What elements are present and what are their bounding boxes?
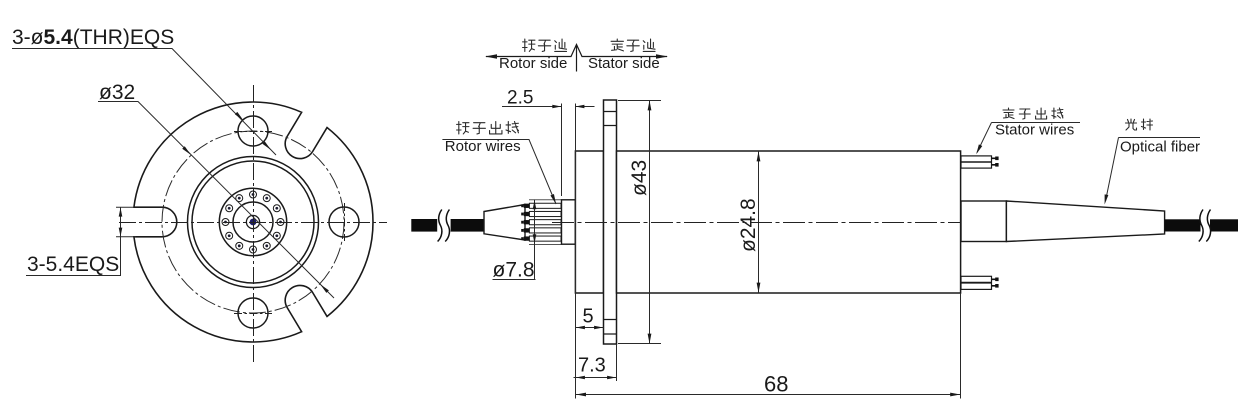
rotor ring circle inner — [192, 161, 314, 283]
svg-text:3-5.4EQS: 3-5.4EQS — [27, 253, 119, 276]
svg-text:5: 5 — [583, 306, 594, 328]
rotor wire pins x5 — [529, 203, 561, 208]
hub circle inner — [233, 202, 273, 242]
centerline of side view — [552, 222, 1164, 224]
right cable break symbol — [1201, 218, 1211, 234]
svg-text:Rotor side: Rotor side — [499, 55, 567, 72]
stator wires connector top — [961, 156, 992, 168]
right cable (optical fiber) — [1165, 219, 1238, 231]
hub circle outer — [219, 188, 286, 255]
text 光纤 — [1126, 119, 1137, 130]
dim 5 — [576, 327, 604, 329]
flange outer contour with 3 slots — [134, 102, 373, 342]
label 定子出线 Stator wires — [977, 123, 1080, 153]
left cable break symbol — [437, 218, 450, 234]
dim 2.5 — [502, 106, 595, 108]
svg-text:7.3: 7.3 — [578, 355, 606, 377]
flange plate ø43 — [604, 100, 617, 344]
text 转子边 — [523, 39, 535, 51]
text 定子边 — [611, 39, 623, 51]
svg-text:68: 68 — [764, 372, 788, 397]
fiber shaft — [961, 201, 1006, 242]
rotor ring circle outer (⌀32) — [188, 157, 319, 288]
dim ø43 — [618, 101, 661, 344]
rotor cable boot (trapezoid) — [484, 205, 525, 241]
dim 7.3 — [574, 344, 618, 381]
label 转子出线 Rotor wires — [442, 140, 556, 205]
rotor/stator side indicator — [486, 45, 667, 72]
left section between connector and flange — [575, 151, 603, 293]
svg-text:Stator wires: Stator wires — [995, 122, 1074, 139]
stator wires connector bottom — [961, 276, 992, 289]
svg-text:ø7.8: ø7.8 — [493, 259, 535, 282]
label 光纤 Optical fiber — [1106, 138, 1201, 202]
mounting hole bottom — [238, 298, 268, 328]
center dot (navy) — [250, 219, 257, 226]
text 定子出线 — [1003, 108, 1014, 119]
svg-text:Stator side: Stator side — [588, 55, 660, 72]
bolt circle (dash-dot) — [162, 131, 344, 313]
dim ø24.8 — [758, 151, 760, 293]
horizontal centerline — [119, 222, 387, 224]
main body ø24.8 — [617, 151, 961, 293]
12 screws on hub — [250, 191, 257, 198]
text 转子出线 — [457, 122, 469, 134]
center bore circle — [246, 215, 259, 228]
svg-text:Optical fiber: Optical fiber — [1120, 139, 1200, 156]
rotor pins shroud lines — [529, 200, 562, 245]
svg-text:2.5: 2.5 — [507, 88, 533, 109]
dim 68 — [576, 110, 961, 399]
svg-text:Rotor wires: Rotor wires — [445, 138, 521, 155]
svg-text:ø24.8: ø24.8 — [737, 198, 760, 252]
svg-text:ø43: ø43 — [628, 160, 651, 196]
vertical centerline — [253, 85, 255, 364]
svg-text:3-ø5.4(THR)EQS: 3-ø5.4(THR)EQS — [12, 26, 174, 49]
fiber cone — [1006, 201, 1164, 242]
svg-text:ø32: ø32 — [99, 81, 135, 104]
mounting hole right — [329, 207, 359, 237]
connector block — [562, 200, 576, 244]
mounting hole top — [238, 116, 268, 146]
dim ø7.8 — [493, 200, 536, 280]
left cable (rotor) — [411, 219, 484, 232]
hole centerline ticks — [234, 132, 345, 314]
